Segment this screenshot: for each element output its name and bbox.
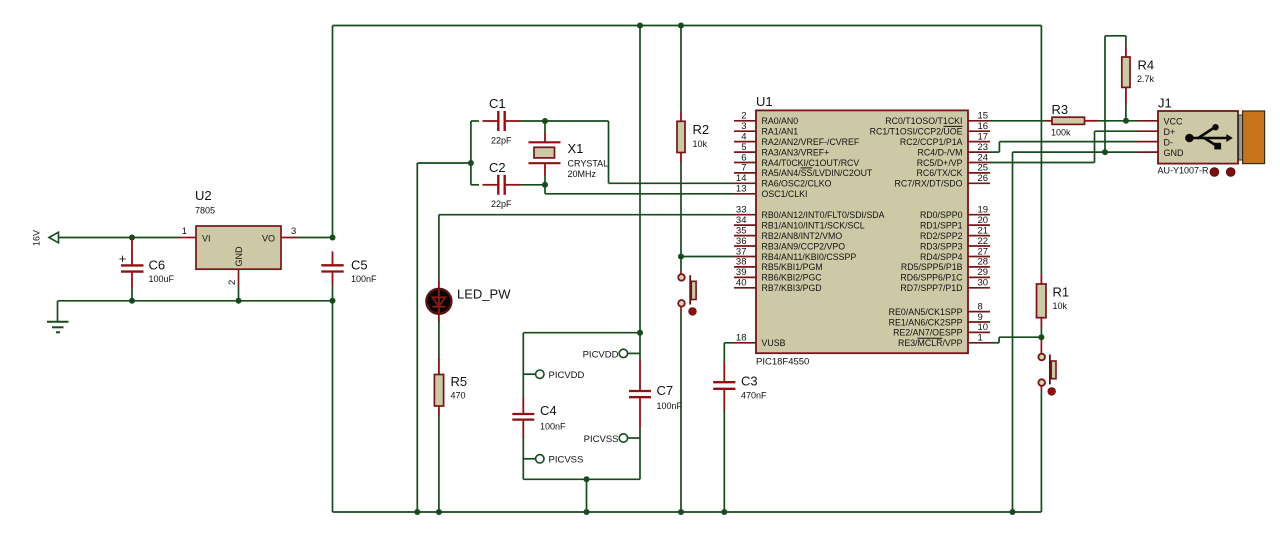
- svg-text:R3: R3: [1052, 102, 1069, 117]
- svg-text:37: 37: [736, 246, 747, 257]
- svg-text:RC0/T1OSO/T1CKI: RC0/T1OSO/T1CKI: [885, 116, 962, 126]
- svg-text:X1: X1: [568, 141, 584, 156]
- svg-text:AU-Y1007-R: AU-Y1007-R: [1158, 166, 1210, 176]
- svg-text:RB4/AN11/KBI0/CSSPP: RB4/AN11/KBI0/CSSPP: [762, 252, 857, 262]
- svg-text:22pF: 22pF: [491, 199, 512, 209]
- svg-text:35: 35: [736, 225, 747, 236]
- svg-text:28: 28: [978, 257, 989, 268]
- svg-text:3: 3: [291, 226, 296, 237]
- svg-text:470: 470: [451, 391, 466, 401]
- svg-text:RD0/SPP0: RD0/SPP0: [920, 210, 963, 220]
- svg-text:RB6/KBI2/PGC: RB6/KBI2/PGC: [762, 273, 823, 283]
- svg-text:9: 9: [978, 312, 983, 323]
- svg-text:RB1/AN10/INT1/SCK/SCL: RB1/AN10/INT1/SCK/SCL: [762, 220, 865, 230]
- svg-text:RD5/SPP5/P1B: RD5/SPP5/P1B: [901, 262, 963, 272]
- svg-text:RA6/OSC2/CLKO: RA6/OSC2/CLKO: [762, 179, 832, 189]
- svg-text:2: 2: [741, 111, 746, 122]
- svg-text:14: 14: [736, 173, 747, 184]
- svg-text:U2: U2: [195, 188, 212, 203]
- svg-text:RD6/SPP6/P1C: RD6/SPP6/P1C: [900, 273, 963, 283]
- svg-text:23: 23: [978, 142, 989, 153]
- svg-text:16: 16: [978, 121, 989, 132]
- svg-text:PICVSS: PICVSS: [549, 455, 584, 466]
- svg-text:RA4/T0CKI/C1OUT/RCV: RA4/T0CKI/C1OUT/RCV: [762, 158, 860, 168]
- svg-text:RE0/AN5/CK1SPP: RE0/AN5/CK1SPP: [889, 307, 963, 317]
- svg-text:CRYSTAL: CRYSTAL: [568, 159, 609, 169]
- svg-text:5: 5: [741, 142, 746, 153]
- svg-text:10k: 10k: [693, 139, 708, 149]
- svg-text:RE2/AN7/OESPP: RE2/AN7/OESPP: [893, 328, 963, 338]
- svg-text:PICVDD: PICVDD: [549, 370, 585, 381]
- svg-text:20MHz: 20MHz: [568, 169, 597, 179]
- svg-text:1: 1: [978, 333, 983, 344]
- svg-text:C2: C2: [489, 160, 506, 175]
- svg-text:1: 1: [182, 226, 187, 237]
- svg-text:RB3/AN9/CCP2/VPO: RB3/AN9/CCP2/VPO: [762, 241, 846, 251]
- svg-text:RA5/AN4/SS/LVDIN/C2OUT: RA5/AN4/SS/LVDIN/C2OUT: [762, 168, 873, 178]
- svg-text:36: 36: [736, 236, 747, 247]
- svg-text:10k: 10k: [1053, 301, 1068, 311]
- svg-text:RC5/D+/VP: RC5/D+/VP: [917, 158, 963, 168]
- svg-text:21: 21: [978, 225, 989, 236]
- svg-text:4: 4: [741, 131, 746, 142]
- svg-text:2.7k: 2.7k: [1137, 74, 1155, 84]
- svg-text:R5: R5: [451, 374, 468, 389]
- svg-text:RB5/KBI1/PGM: RB5/KBI1/PGM: [762, 262, 823, 272]
- svg-text:LED_PW: LED_PW: [457, 287, 511, 302]
- svg-text:RD2/SPP2: RD2/SPP2: [920, 231, 963, 241]
- svg-text:100k: 100k: [1051, 128, 1071, 138]
- svg-text:13: 13: [736, 184, 747, 195]
- svg-text:RC2/CCP1/P1A: RC2/CCP1/P1A: [900, 137, 963, 147]
- svg-text:RA0/AN0: RA0/AN0: [762, 116, 799, 126]
- svg-text:PICVDD: PICVDD: [583, 349, 619, 360]
- svg-text:RB7/KBI3/PGD: RB7/KBI3/PGD: [762, 283, 822, 293]
- svg-text:30: 30: [978, 278, 989, 289]
- svg-text:R1: R1: [1053, 285, 1070, 300]
- svg-text:20: 20: [978, 215, 989, 226]
- svg-text:C5: C5: [351, 258, 368, 273]
- svg-text:18: 18: [736, 333, 747, 344]
- svg-text:GND: GND: [1164, 148, 1185, 158]
- svg-text:10: 10: [978, 322, 989, 333]
- svg-text:C1: C1: [489, 96, 506, 111]
- svg-text:U1: U1: [756, 94, 773, 109]
- svg-text:R2: R2: [693, 122, 710, 137]
- svg-text:7805: 7805: [195, 206, 215, 216]
- svg-text:PICVSS: PICVSS: [584, 434, 619, 445]
- svg-text:RA2/AN2/VREF-/CVREF: RA2/AN2/VREF-/CVREF: [762, 137, 860, 147]
- svg-text:RD3/SPP3: RD3/SPP3: [920, 241, 963, 251]
- svg-text:15: 15: [978, 111, 989, 122]
- svg-text:RA3/AN3/VREF+: RA3/AN3/VREF+: [762, 147, 830, 157]
- svg-text:RD7/SPP7/P1D: RD7/SPP7/P1D: [900, 283, 962, 293]
- svg-text:D+: D+: [1164, 127, 1176, 137]
- svg-text:VUSB: VUSB: [762, 338, 786, 348]
- svg-text:100nF: 100nF: [657, 401, 683, 411]
- svg-text:6: 6: [741, 152, 746, 163]
- svg-text:33: 33: [736, 205, 747, 216]
- svg-text:38: 38: [736, 257, 747, 268]
- svg-text:17: 17: [978, 131, 989, 142]
- svg-text:C7: C7: [657, 383, 674, 398]
- svg-text:24: 24: [978, 152, 989, 163]
- svg-text:OSC1/CLKI: OSC1/CLKI: [762, 189, 808, 199]
- svg-text:RD1/SPP1: RD1/SPP1: [920, 220, 963, 230]
- svg-text:3: 3: [741, 121, 746, 132]
- svg-text:40: 40: [736, 278, 747, 289]
- svg-text:RC4/D-/VM: RC4/D-/VM: [918, 147, 963, 157]
- svg-text:27: 27: [978, 246, 989, 257]
- svg-text:2: 2: [227, 280, 238, 285]
- svg-text:RE1/AN6/CK2SPP: RE1/AN6/CK2SPP: [889, 317, 963, 327]
- svg-text:22: 22: [978, 236, 989, 247]
- svg-text:19: 19: [978, 205, 989, 216]
- svg-text:25: 25: [978, 163, 989, 174]
- svg-text:VI: VI: [202, 234, 211, 244]
- svg-text:16V: 16V: [32, 230, 42, 246]
- svg-text:+: +: [119, 251, 127, 266]
- svg-text:VCC: VCC: [1164, 117, 1184, 127]
- svg-text:RC1/T1OSI/CCP2/UOE: RC1/T1OSI/CCP2/UOE: [870, 127, 963, 137]
- svg-text:C4: C4: [540, 403, 557, 418]
- svg-text:PIC18F4550: PIC18F4550: [756, 357, 809, 368]
- svg-text:RB2/AN8/INT2/VMO: RB2/AN8/INT2/VMO: [762, 231, 843, 241]
- svg-text:100uF: 100uF: [149, 274, 175, 284]
- svg-text:29: 29: [978, 267, 989, 278]
- svg-text:470nF: 470nF: [741, 391, 767, 401]
- svg-text:RE3/MCLR/VPP: RE3/MCLR/VPP: [898, 338, 963, 348]
- svg-text:RC6/TX/CK: RC6/TX/CK: [917, 168, 963, 178]
- svg-text:RA1/AN1: RA1/AN1: [762, 127, 799, 137]
- svg-text:GND: GND: [234, 246, 244, 267]
- svg-text:VO: VO: [262, 234, 275, 244]
- svg-text:RB0/AN12/INT0/FLT0/SDI/SDA: RB0/AN12/INT0/FLT0/SDI/SDA: [762, 210, 885, 220]
- svg-text:22pF: 22pF: [491, 136, 512, 146]
- svg-text:7: 7: [741, 163, 746, 174]
- svg-text:100nF: 100nF: [351, 274, 377, 284]
- svg-text:RD4/SPP4: RD4/SPP4: [920, 252, 963, 262]
- svg-text:RC7/RX/DT/SDO: RC7/RX/DT/SDO: [895, 179, 963, 189]
- svg-text:26: 26: [978, 173, 989, 184]
- svg-text:100nF: 100nF: [540, 422, 566, 432]
- svg-text:R4: R4: [1138, 58, 1155, 73]
- svg-text:D-: D-: [1164, 137, 1174, 147]
- svg-text:34: 34: [736, 215, 747, 226]
- svg-text:C6: C6: [149, 258, 166, 273]
- svg-text:8: 8: [978, 301, 983, 312]
- svg-text:C3: C3: [741, 374, 758, 389]
- svg-text:39: 39: [736, 267, 747, 278]
- svg-text:J1: J1: [1158, 96, 1172, 111]
